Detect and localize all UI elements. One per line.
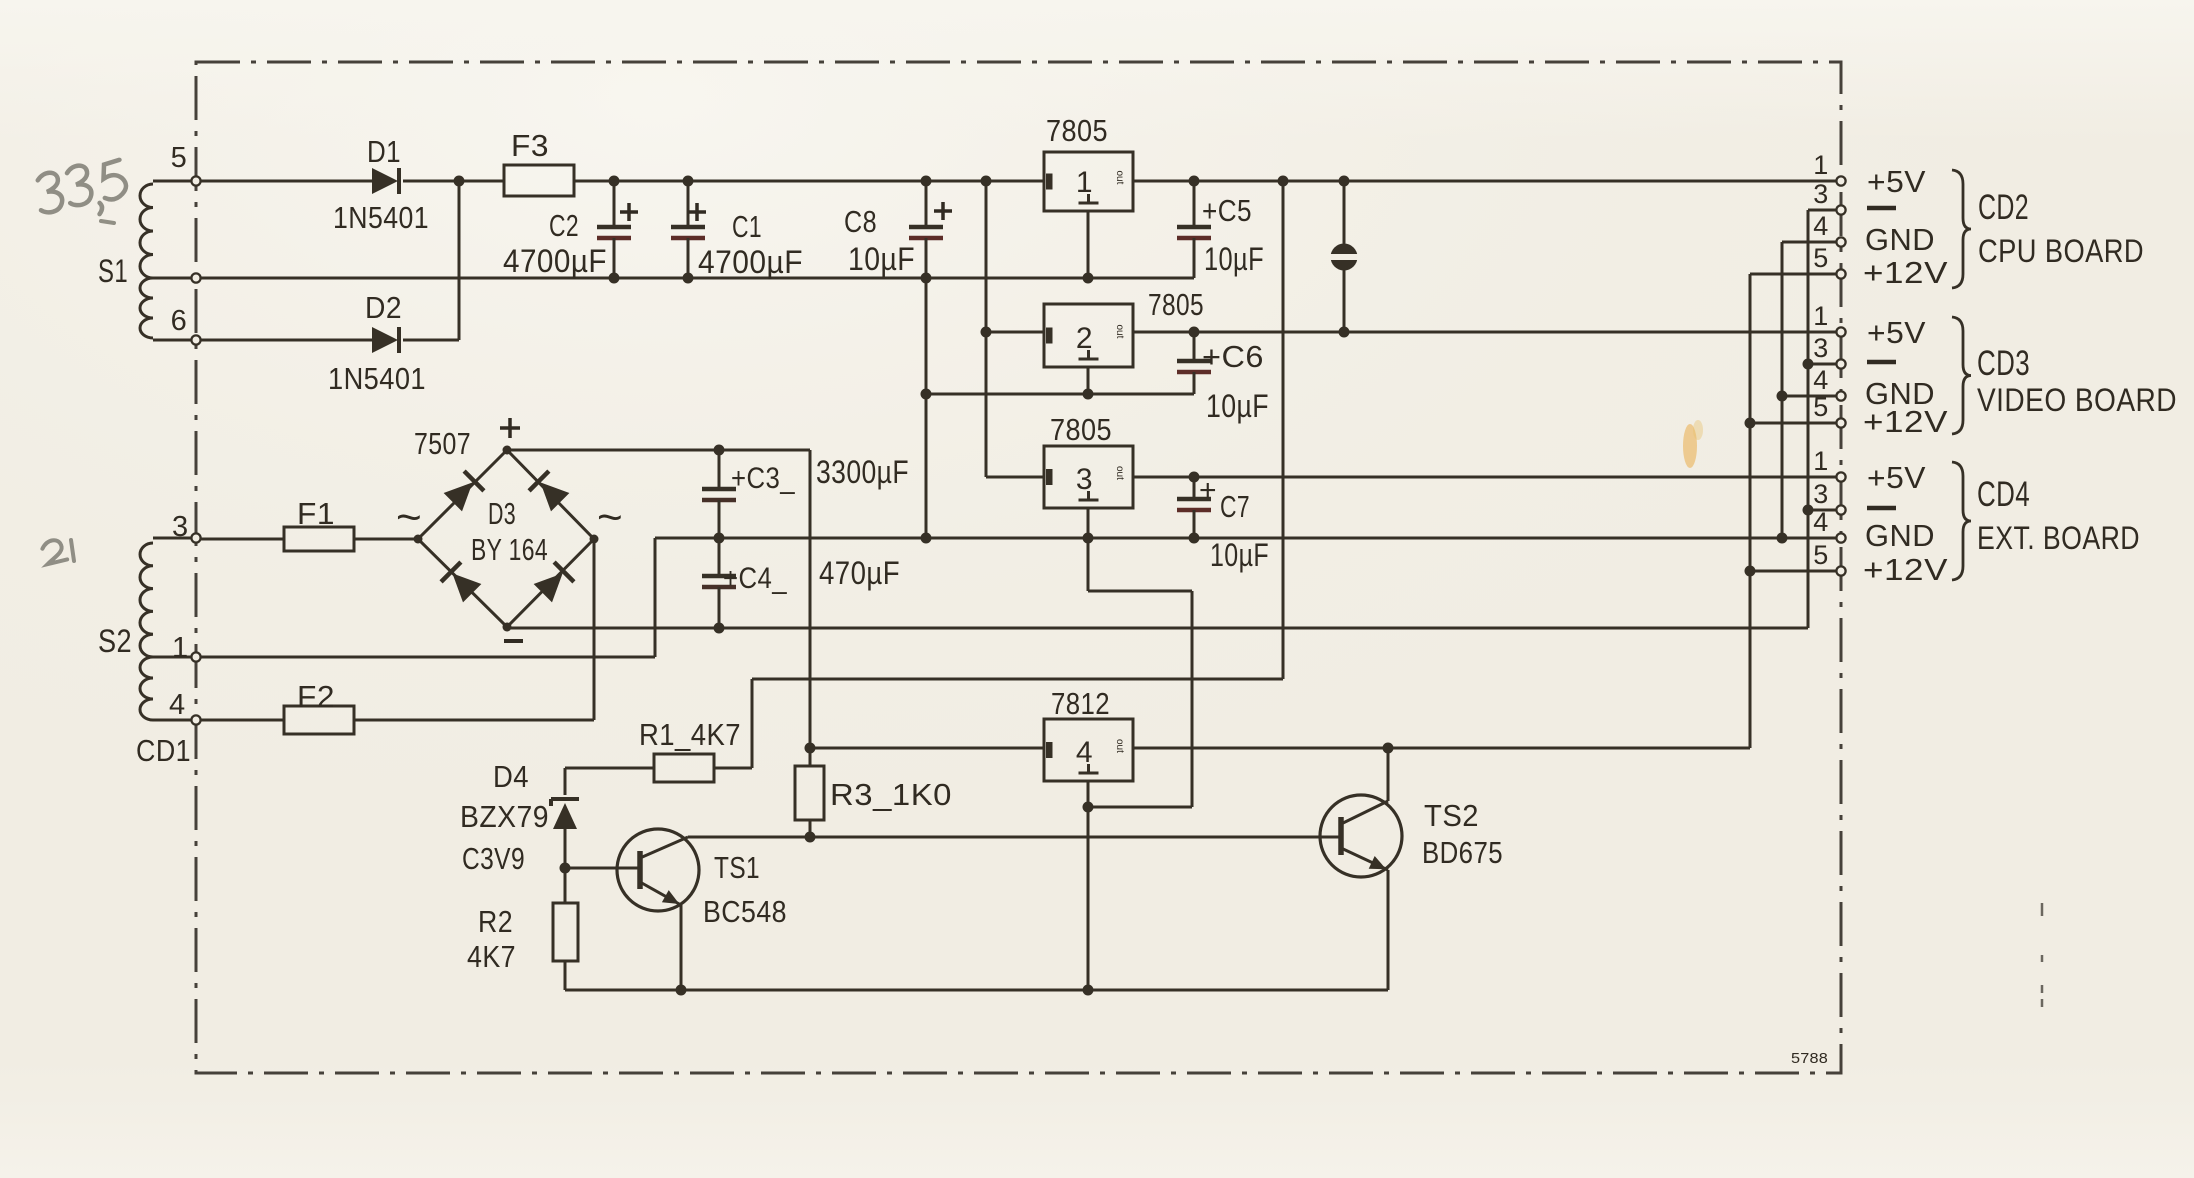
svg-text:C8: C8 [844,204,877,239]
svg-text:3: 3 [1813,479,1829,509]
svg-text:4: 4 [1076,736,1093,769]
svg-text:out: out [1114,325,1125,339]
svg-text:4: 4 [1813,211,1829,241]
svg-text:C1: C1 [732,209,762,244]
svg-text:CD4: CD4 [1977,475,2030,514]
svg-text:7507: 7507 [414,426,471,461]
svg-text:1N5401: 1N5401 [328,361,426,396]
svg-text:+12V: +12V [1863,404,1948,439]
svg-text:out: out [1114,171,1125,185]
svg-text:GND: GND [1865,518,1935,553]
svg-text:3: 3 [1076,463,1093,496]
svg-text:EXT. BOARD: EXT. BOARD [1977,520,2140,556]
svg-text:CPU BOARD: CPU BOARD [1978,233,2144,269]
svg-text:S2: S2 [98,623,132,659]
svg-text:+C5: +C5 [1202,193,1252,228]
svg-text:GND: GND [1865,222,1935,257]
svg-text:1: 1 [1813,446,1829,476]
svg-text:2: 2 [1076,322,1093,355]
svg-text:R1_4K7: R1_4K7 [639,717,741,752]
svg-text:C7: C7 [1220,489,1250,524]
svg-text:C2: C2 [549,208,579,243]
svg-text:1: 1 [1813,150,1829,180]
svg-text:10µF: 10µF [1204,241,1264,277]
svg-text:CD3: CD3 [1977,344,2030,383]
svg-text:1: 1 [1076,166,1093,199]
svg-text:TS1: TS1 [714,850,760,885]
svg-text:out: out [1114,466,1125,480]
svg-text:1: 1 [1813,301,1829,331]
svg-text:5: 5 [1813,540,1829,570]
svg-text:5788: 5788 [1791,1050,1828,1067]
svg-text:F3: F3 [511,128,549,163]
svg-text:1: 1 [172,632,189,664]
svg-text:6: 6 [171,305,188,337]
svg-text:CD1: CD1 [136,733,191,768]
svg-text:4: 4 [169,689,186,721]
svg-text:D1: D1 [367,134,401,169]
svg-text:D4: D4 [493,759,529,794]
svg-text:4: 4 [1813,507,1829,537]
svg-text:F2: F2 [297,679,335,714]
svg-text:4K7: 4K7 [467,939,516,974]
svg-text:TS2: TS2 [1424,798,1479,833]
svg-text:5: 5 [1813,243,1829,273]
svg-text:7812: 7812 [1051,686,1110,721]
svg-text:BZX79: BZX79 [460,799,549,834]
svg-text:VIDEO BOARD: VIDEO BOARD [1977,382,2177,418]
svg-text:10µF: 10µF [1210,537,1269,573]
svg-text:3: 3 [172,511,189,543]
svg-text:5: 5 [171,142,188,174]
svg-text:5: 5 [1813,392,1829,422]
svg-text:+5V: +5V [1867,460,1926,495]
svg-text:+C6: +C6 [1202,339,1264,374]
svg-text:470µF: 470µF [819,555,900,591]
svg-text:BD675: BD675 [1422,835,1503,870]
svg-text:~: ~ [396,493,422,542]
svg-text:+5V: +5V [1867,315,1926,350]
svg-text:3: 3 [1813,179,1829,209]
svg-text:7805: 7805 [1050,412,1112,447]
svg-text:~: ~ [597,493,623,542]
svg-text:R2: R2 [478,904,513,939]
svg-text:+: + [1199,474,1217,507]
svg-text:D2: D2 [365,290,402,325]
svg-text:R3_1K0: R3_1K0 [830,777,952,812]
svg-text:4: 4 [1813,365,1829,395]
svg-text:CD2: CD2 [1978,188,2029,227]
svg-text:3: 3 [1813,333,1829,363]
svg-text:10µF: 10µF [848,241,915,277]
svg-text:4700µF: 4700µF [503,243,607,279]
svg-text:C3V9: C3V9 [462,841,525,876]
svg-text:F1: F1 [297,496,335,531]
svg-text:+12V: +12V [1863,552,1948,587]
svg-text:+12V: +12V [1863,255,1948,290]
svg-text:3300µF: 3300µF [816,454,909,490]
svg-text:4700µF: 4700µF [698,244,803,280]
svg-text:D3: D3 [488,496,516,531]
svg-text:1N5401: 1N5401 [333,200,429,235]
svg-text:+C3_: +C3_ [731,462,796,495]
svg-text:7805: 7805 [1148,287,1204,322]
svg-text:7805: 7805 [1046,113,1108,148]
svg-text:+C4_: +C4_ [723,562,788,595]
svg-text:+5V: +5V [1867,164,1926,199]
svg-text:BY 164: BY 164 [471,532,548,567]
svg-text:BC548: BC548 [703,894,787,929]
svg-text:S1: S1 [98,253,128,289]
svg-text:out: out [1114,739,1125,753]
svg-text:10µF: 10µF [1206,388,1269,424]
